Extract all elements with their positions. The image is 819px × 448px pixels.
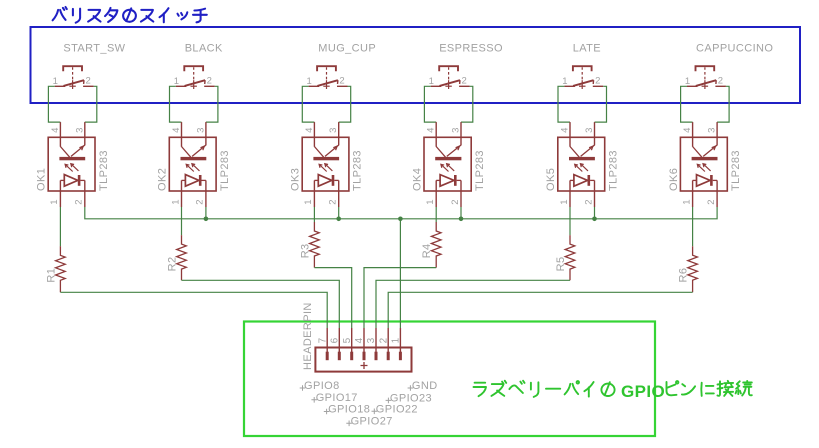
svg-text:OK4: OK4 — [411, 168, 423, 191]
header pin 2 stub — [387, 328, 389, 352]
connector HEADERPIN box — [315, 348, 411, 372]
svg-text:4: 4 — [682, 127, 693, 133]
svg-text:1: 1 — [685, 76, 691, 87]
svg-text:2: 2 — [706, 199, 717, 205]
svg-text:3: 3 — [451, 127, 462, 133]
note text (Japanese): connect to Raspberry Pi GPIO pins — [474, 381, 752, 401]
resistor R2 — [177, 235, 187, 280]
svg-text:2: 2 — [718, 76, 724, 87]
svg-text:BLACK: BLACK — [185, 43, 223, 55]
wire OK5 pin2 to bus — [594, 207, 596, 219]
net label GND — [408, 385, 414, 391]
switch S6 CAPPUCCINO — [685, 66, 726, 89]
switch S2 BLACK — [174, 66, 215, 89]
svg-text:1: 1 — [559, 199, 570, 205]
svg-text:GPIO: GPIO — [621, 382, 665, 401]
svg-text:2: 2 — [195, 199, 206, 205]
resistor R5 — [565, 235, 575, 280]
polarity mark + — [361, 362, 368, 369]
wire S5 pin2 to OK5 pin3 — [595, 86, 607, 122]
svg-text:2: 2 — [378, 337, 389, 343]
svg-text:TLP283: TLP283 — [730, 150, 742, 191]
optocoupler OK3 TLP283 — [302, 122, 349, 207]
svg-text:2: 2 — [86, 76, 92, 87]
svg-text:4: 4 — [560, 127, 571, 133]
svg-text:2: 2 — [339, 76, 345, 87]
resistor R1 — [56, 246, 66, 292]
svg-text:1: 1 — [391, 337, 402, 343]
header pin 6 stub — [338, 328, 340, 352]
svg-text:3: 3 — [707, 127, 718, 133]
wire S3 pin1 to OK3 pin4 — [302, 86, 314, 122]
wire R6 to header pin 2 — [388, 292, 692, 328]
wire OK1 pin1 to R1 — [59, 207, 61, 246]
svg-text:4: 4 — [50, 127, 61, 133]
wire OK3 pin1 to R3 — [313, 207, 315, 222]
svg-text:HEADERPIN: HEADERPIN — [302, 302, 314, 370]
svg-text:CAPPUCCINO: CAPPUCCINO — [696, 43, 773, 55]
svg-text:1: 1 — [429, 76, 435, 87]
wire OK2 pin2 to bus — [205, 207, 207, 219]
wire S4 pin1 to OK4 pin4 — [424, 86, 436, 122]
wire S3 pin2 to OK3 pin3 — [339, 86, 351, 122]
frame: Raspberry Pi GPIO group box — [244, 322, 655, 437]
wire ground bus from OK1 pin2 to OK6 pin2 — [85, 207, 717, 219]
svg-text:4: 4 — [304, 127, 315, 133]
switch S5 LATE — [562, 66, 603, 89]
optocoupler OK6 TLP283 — [680, 122, 727, 207]
svg-text:7: 7 — [317, 337, 328, 343]
net label GPIO8 — [300, 385, 306, 391]
svg-text:R3: R3 — [299, 243, 311, 258]
svg-text:MUG_CUP: MUG_CUP — [318, 43, 376, 55]
header pin 4 stub — [363, 328, 365, 352]
net label GPIO23 — [386, 398, 392, 404]
wire OK6 pin1 to R6 — [692, 207, 694, 246]
svg-text:OK2: OK2 — [157, 168, 169, 191]
svg-text:1: 1 — [562, 76, 568, 87]
svg-text:TLP283: TLP283 — [474, 150, 486, 191]
header pin 6 pad — [338, 352, 341, 361]
header pin 5 stub — [351, 328, 353, 352]
svg-text:R5: R5 — [555, 257, 567, 272]
svg-text:3: 3 — [366, 337, 377, 343]
svg-text:2: 2 — [74, 199, 85, 205]
svg-text:3: 3 — [195, 127, 206, 133]
optocoupler OK5 TLP283 — [558, 122, 605, 207]
wire S2 pin1 to OK2 pin4 — [170, 86, 182, 122]
svg-text:5: 5 — [342, 337, 353, 343]
svg-text:GPIO8: GPIO8 — [304, 380, 340, 392]
switch S3 MUG_CUP — [307, 66, 348, 89]
header pin 5 pad — [350, 352, 353, 361]
net label GPIO17 — [311, 397, 317, 403]
wire OK2 pin1 to R2 — [181, 207, 183, 235]
svg-text:GPIO18: GPIO18 — [328, 404, 370, 416]
svg-text:START_SW: START_SW — [63, 43, 125, 55]
svg-text:GPIO17: GPIO17 — [316, 392, 358, 404]
wire S1 pin1 to OK1 pin4 — [48, 86, 60, 122]
svg-text:1: 1 — [681, 199, 692, 205]
wire OK3 pin2 to bus — [338, 207, 340, 219]
svg-text:2: 2 — [462, 76, 468, 87]
svg-text:OK1: OK1 — [36, 168, 48, 191]
header pin 3 pad — [375, 352, 378, 361]
svg-text:3: 3 — [328, 127, 339, 133]
wire S1 pin2 to OK1 pin3 — [85, 86, 97, 122]
svg-text:2: 2 — [207, 76, 213, 87]
switch S4 ESPRESSO — [429, 66, 470, 89]
svg-text:1: 1 — [170, 199, 181, 205]
optocoupler OK2 TLP283 — [169, 122, 216, 207]
header pin 1 pad — [399, 352, 402, 361]
svg-text:4: 4 — [426, 127, 437, 133]
svg-text:2: 2 — [328, 199, 339, 205]
optocoupler OK1 TLP283 — [48, 122, 95, 207]
svg-text:R1: R1 — [45, 268, 57, 283]
resistor R4 — [431, 222, 441, 268]
svg-text:2: 2 — [450, 199, 461, 205]
wire R2 to header pin 6 — [182, 280, 340, 328]
svg-text:TLP283: TLP283 — [608, 150, 620, 191]
header pin 3 stub — [375, 328, 377, 352]
svg-text:1: 1 — [174, 76, 180, 87]
svg-text:OK5: OK5 — [545, 168, 557, 191]
svg-text:TLP283: TLP283 — [98, 150, 110, 191]
wire bus to header pin 1 (GND) — [399, 219, 401, 328]
net label GPIO22 — [372, 409, 378, 415]
svg-text:4: 4 — [171, 127, 182, 133]
junction at OK3 pin2 / bus — [336, 217, 341, 222]
svg-text:1: 1 — [307, 76, 313, 87]
wire R5 to header pin 3 — [376, 280, 570, 328]
header pin 7 pad — [326, 352, 329, 361]
wire S4 pin2 to OK4 pin3 — [461, 86, 473, 122]
header pin 1 stub — [399, 328, 401, 352]
svg-text:TLP283: TLP283 — [352, 150, 364, 191]
wire S6 pin2 to OK6 pin3 — [717, 86, 729, 122]
svg-text:GPIO27: GPIO27 — [351, 416, 393, 428]
optocoupler OK4 TLP283 — [424, 122, 471, 207]
svg-text:6: 6 — [330, 337, 341, 343]
title text (Japanese): barista switches — [53, 7, 207, 23]
junction at bus / GND tap — [398, 217, 403, 222]
frame: barista switch group box — [31, 27, 801, 103]
wire S2 pin2 to OK2 pin3 — [206, 86, 218, 122]
svg-text:LATE: LATE — [573, 43, 601, 55]
header pin 7 stub — [326, 328, 328, 352]
junction at OK2 pin2 / bus — [204, 217, 209, 222]
svg-text:3: 3 — [74, 127, 85, 133]
net label GPIO27 — [346, 421, 352, 427]
resistor R3 — [310, 222, 320, 268]
net label GPIO18 — [324, 409, 330, 415]
svg-text:TLP283: TLP283 — [219, 150, 231, 191]
svg-text:R2: R2 — [167, 257, 179, 272]
svg-text:2: 2 — [595, 76, 601, 87]
svg-text:R4: R4 — [421, 243, 433, 258]
svg-text:OK6: OK6 — [668, 168, 680, 191]
wire S5 pin1 to OK5 pin4 — [558, 86, 570, 122]
wire S6 pin1 to OK6 pin4 — [681, 86, 693, 122]
wire OK4 pin2 to bus — [460, 207, 462, 219]
wire R4 to header pin 4 — [364, 268, 436, 328]
wire R3 to header pin 5 — [314, 268, 351, 328]
svg-text:OK3: OK3 — [290, 168, 302, 191]
svg-text:GND: GND — [412, 380, 438, 392]
junction at OK4 pin2 / bus — [459, 217, 464, 222]
junction at OK5 pin2 / bus — [592, 217, 597, 222]
resistor R6 — [688, 246, 698, 292]
svg-text:GPIO22: GPIO22 — [376, 404, 418, 416]
wire OK5 pin1 to R5 — [569, 207, 571, 235]
svg-text:2: 2 — [583, 199, 594, 205]
svg-text:3: 3 — [584, 127, 595, 133]
svg-text:R6: R6 — [678, 268, 690, 283]
header pin 2 pad — [387, 352, 390, 361]
header pin 4 pad — [363, 352, 366, 361]
wire R1 to header pin 7 — [60, 292, 327, 328]
svg-text:1: 1 — [49, 199, 60, 205]
wire OK4 pin1 to R4 — [435, 207, 437, 222]
svg-text:4: 4 — [354, 337, 365, 343]
switch S1 START_SW — [53, 66, 94, 89]
svg-text:1: 1 — [425, 199, 436, 205]
svg-text:1: 1 — [303, 199, 314, 205]
svg-text:ESPRESSO: ESPRESSO — [439, 43, 503, 55]
svg-text:1: 1 — [53, 76, 59, 87]
